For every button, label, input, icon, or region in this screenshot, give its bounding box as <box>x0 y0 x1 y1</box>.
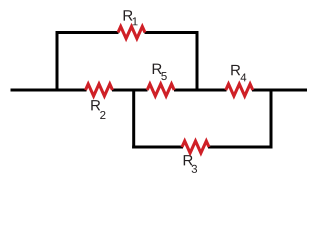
wire: main horizontal, far-left input segment <box>11 89 87 92</box>
wire: bottom branch horizontal right of R3 <box>208 146 273 149</box>
wire: main horizontal right output segment <box>252 89 307 92</box>
resistor R5 <box>147 84 174 96</box>
resistor R1 <box>118 27 145 39</box>
label R4 subscript 4 <box>241 73 247 81</box>
label R3 <box>184 155 193 165</box>
wire: bottom branch right vertical riser <box>270 89 273 149</box>
wire: top branch left vertical riser <box>56 31 59 92</box>
label R2 <box>91 100 100 110</box>
resistor R2 <box>86 84 113 96</box>
wire: bottom branch left vertical drop <box>132 89 135 149</box>
resistor R3 <box>182 141 209 153</box>
label R4 <box>231 65 240 75</box>
wire: top branch horizontal right of R1 <box>145 31 199 34</box>
wire: bottom branch horizontal left of R3 <box>132 146 183 149</box>
resistor R4 <box>226 84 253 96</box>
wire: main horizontal between R5 and R4 <box>174 89 227 92</box>
wire: main horizontal between R2 and R5 <box>112 89 148 92</box>
label R1 <box>124 10 133 20</box>
label R2 subscript 2 <box>100 111 105 119</box>
label R3 subscript 3 <box>192 165 197 173</box>
label R1 subscript 1 <box>133 17 138 25</box>
label R5 <box>153 64 162 74</box>
wire: top branch horizontal left of R1 <box>56 31 119 34</box>
label R5 subscript 5 <box>161 72 166 80</box>
wire: top branch right vertical drop <box>196 31 199 92</box>
